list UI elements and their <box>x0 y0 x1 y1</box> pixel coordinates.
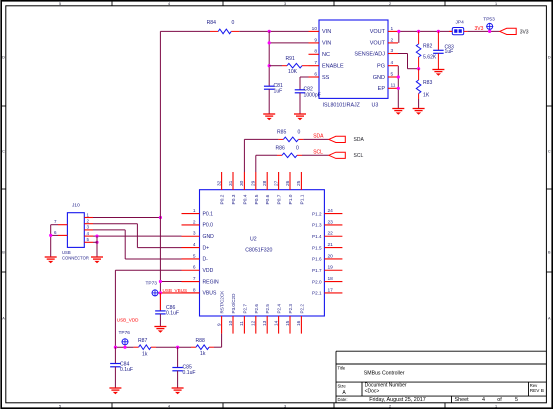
wire P0.4 to R85 <box>243 139 245 172</box>
ground C81 <box>263 113 275 115</box>
svg-text:D-: D- <box>203 257 209 263</box>
svg-text:P2.1: P2.1 <box>312 291 322 296</box>
svg-text:VOUT: VOUT <box>370 29 386 35</box>
svg-text:EP: EP <box>378 86 386 92</box>
U2 pin 4 D+ <box>182 242 210 251</box>
svg-text:R87: R87 <box>138 338 148 344</box>
U2 pin 14 P2.4 <box>273 304 281 334</box>
junction EP pin11 <box>397 87 400 90</box>
svg-text:4: 4 <box>391 60 394 66</box>
svg-text:0: 0 <box>232 20 235 26</box>
svg-text:C: C <box>548 150 551 154</box>
J10 pin 4 <box>84 231 93 236</box>
svg-text:A: A <box>548 317 551 321</box>
power flag 3V3 <box>500 28 529 35</box>
ground R83 <box>413 108 425 110</box>
resistor R91 <box>282 65 287 67</box>
svg-text:32: 32 <box>216 180 222 186</box>
U2 pin 13 P2.5 <box>262 304 270 334</box>
wire USB_VDD rail <box>115 346 133 348</box>
resistor R82 <box>418 31 420 44</box>
resistor R88 <box>191 346 196 348</box>
junction pin9 branch <box>268 41 271 44</box>
svg-text:5: 5 <box>59 2 61 6</box>
svg-text:P1.0: P1.0 <box>288 194 294 204</box>
svg-text:1k: 1k <box>200 351 206 357</box>
svg-text:3: 3 <box>391 48 394 54</box>
svg-text:3: 3 <box>284 2 286 6</box>
svg-text:<Doc>: <Doc> <box>365 389 380 395</box>
wire R86 to SCL <box>302 154 329 156</box>
svg-text:6: 6 <box>193 265 196 271</box>
svg-text:4: 4 <box>168 2 170 6</box>
capacitor C85 <box>177 347 179 367</box>
U2 pin 3 GND <box>182 231 215 240</box>
svg-text:SS: SS <box>322 75 330 81</box>
svg-text:10: 10 <box>228 320 234 326</box>
svg-text:2: 2 <box>193 219 196 225</box>
svg-text:Title: Title <box>338 366 346 371</box>
svg-text:Size: Size <box>338 383 347 388</box>
svg-text:R91: R91 <box>286 56 296 62</box>
offpage flag SCL <box>329 152 364 159</box>
junction VBUS <box>159 216 162 219</box>
U2 pin 6 VDD <box>182 265 214 274</box>
svg-text:REV B: REV B <box>530 388 544 393</box>
svg-text:R88: R88 <box>196 338 206 344</box>
svg-text:SDA: SDA <box>313 134 324 140</box>
junction GND pin5 <box>397 75 400 78</box>
wire J10 D- to U2 D+ <box>93 223 137 225</box>
svg-text:P0.4: P0.4 <box>242 194 248 204</box>
U2 pin 22 P1.4 <box>312 231 342 239</box>
svg-text:3V3: 3V3 <box>520 29 529 35</box>
svg-text:7: 7 <box>314 60 317 66</box>
svg-text:1: 1 <box>495 404 497 408</box>
junction R82 top <box>417 30 420 33</box>
J10 pin 5 <box>84 237 93 242</box>
wire VOUT pin2 join <box>398 31 400 43</box>
svg-text:9: 9 <box>216 323 222 326</box>
U2 pin 2 P0.0 <box>182 219 214 228</box>
U2 pin 11 P2.7 <box>239 304 247 334</box>
svg-text:2: 2 <box>389 404 391 408</box>
wire VBUS vertical <box>159 31 161 311</box>
svg-text:R83: R83 <box>423 80 433 86</box>
svg-text:21: 21 <box>328 242 334 248</box>
test point TP53 <box>483 17 495 32</box>
resistor R85 <box>278 138 283 140</box>
svg-text:23: 23 <box>328 219 334 225</box>
J10 pin 7 <box>54 219 67 225</box>
svg-text:USB: USB <box>62 250 71 255</box>
wire VBUS pin <box>158 292 200 294</box>
svg-text:P2.0: P2.0 <box>312 279 322 284</box>
ground C86 <box>154 326 166 328</box>
wire REGIN <box>160 281 181 283</box>
svg-text:Friday, August 25, 2017: Friday, August 25, 2017 <box>369 397 426 403</box>
svg-text:28: 28 <box>262 180 268 186</box>
svg-text:4: 4 <box>193 242 196 248</box>
connector J10 <box>62 203 89 261</box>
junction TP76 <box>123 346 126 349</box>
svg-text:24: 24 <box>328 208 334 214</box>
svg-text:7: 7 <box>193 276 196 282</box>
svg-text:TP53: TP53 <box>483 17 495 23</box>
svg-text:11: 11 <box>391 83 396 89</box>
svg-text:RST/C2CK: RST/C2CK <box>220 290 225 314</box>
junction C84 <box>114 346 117 349</box>
svg-text:NC: NC <box>322 52 330 58</box>
ground J10 shield <box>45 256 57 258</box>
svg-text:5: 5 <box>59 404 61 408</box>
svg-text:1K: 1K <box>423 93 430 99</box>
svg-text:1uF: 1uF <box>445 49 454 55</box>
U2 pin 5 D- <box>182 253 209 262</box>
svg-text:D: D <box>548 56 551 60</box>
svg-text:27: 27 <box>273 180 279 186</box>
svg-text:P2.5: P2.5 <box>265 304 270 314</box>
svg-text:2: 2 <box>391 37 394 43</box>
svg-text:17: 17 <box>328 287 334 293</box>
test point TP73 <box>146 280 159 296</box>
U2 pin 12 P2.6 <box>251 304 259 334</box>
svg-text:R86: R86 <box>276 145 286 151</box>
svg-text:11: 11 <box>239 321 245 326</box>
wire J10 D+ to U2 D- <box>93 229 125 231</box>
capacitor C81 <box>264 85 275 87</box>
svg-text:P1.2: P1.2 <box>312 211 322 216</box>
svg-text:P2.3: P2.3 <box>288 304 293 314</box>
wire PG/GND/EP <box>397 66 399 109</box>
ground C85 <box>172 387 184 389</box>
svg-text:P2.2: P2.2 <box>299 304 304 314</box>
junction J10 pin4 <box>95 235 98 238</box>
wire J10 VBUS <box>93 217 160 219</box>
junction C83 top <box>437 30 440 33</box>
U2 pin 1 P0.1 <box>182 208 214 217</box>
svg-text:P0.2: P0.2 <box>220 194 226 204</box>
svg-text:R82: R82 <box>423 44 433 50</box>
ground J10 signal <box>91 256 103 258</box>
svg-text:4: 4 <box>482 397 485 403</box>
svg-text:20: 20 <box>328 253 334 259</box>
svg-text:1: 1 <box>193 208 196 214</box>
svg-text:3V3: 3V3 <box>475 26 484 32</box>
svg-text:13: 13 <box>262 320 268 326</box>
svg-text:TP76: TP76 <box>119 330 131 336</box>
wire P0.5 to R86 <box>255 155 257 172</box>
svg-text:P0.7: P0.7 <box>277 194 283 204</box>
svg-text:25: 25 <box>296 180 302 186</box>
svg-text:8: 8 <box>314 49 317 55</box>
U2 pin 15 P2.3 <box>285 304 293 334</box>
U2 pin 16 P2.2 <box>296 304 304 334</box>
svg-text:2: 2 <box>389 2 391 6</box>
U2 pin 10 P3.0/C2D <box>228 293 236 334</box>
svg-text:U3: U3 <box>372 103 379 109</box>
svg-text:1: 1 <box>391 26 394 32</box>
jumper JP4 <box>449 20 467 35</box>
svg-text:0: 0 <box>298 129 301 135</box>
U2 pin 21 P1.5 <box>312 242 342 250</box>
offpage flag SDA <box>329 136 365 143</box>
svg-text:P1.7: P1.7 <box>312 268 322 273</box>
U2 pin 24 P1.2 <box>312 208 342 216</box>
U2 pin 25 P1.1 <box>296 172 305 205</box>
wire J10 shield to ground <box>51 224 58 226</box>
junction REGIN <box>159 280 162 283</box>
svg-text:P0.6: P0.6 <box>265 194 271 204</box>
svg-text:PG: PG <box>377 64 385 70</box>
U2 pin 30 P0.4 <box>239 172 248 205</box>
wire VBUS to VIN rail <box>160 30 210 32</box>
svg-text:5.62K: 5.62K <box>423 54 437 60</box>
U2 pin 19 P1.7 <box>312 265 342 273</box>
wire VDD <box>115 269 181 271</box>
svg-text:REGIN: REGIN <box>203 279 219 285</box>
svg-text:5: 5 <box>193 253 196 259</box>
junction J10 pin5 <box>95 241 98 244</box>
svg-text:R85: R85 <box>277 129 287 135</box>
U2 pin 18 P2.0 <box>312 276 342 284</box>
junction J10 shield <box>49 234 52 237</box>
svg-text:5: 5 <box>391 71 394 77</box>
svg-text:P3.0/C2D: P3.0/C2D <box>231 293 236 314</box>
junction C85 <box>176 346 179 349</box>
svg-text:Sheet: Sheet <box>455 397 470 403</box>
svg-text:10K: 10K <box>288 69 298 75</box>
svg-text:JP4: JP4 <box>456 20 465 26</box>
resistor R87 <box>134 346 139 348</box>
svg-text:P0.0: P0.0 <box>203 223 214 229</box>
svg-text:29: 29 <box>251 180 257 186</box>
svg-text:26: 26 <box>285 180 291 186</box>
svg-text:14: 14 <box>273 320 279 326</box>
svg-text:B: B <box>548 251 551 255</box>
svg-text:6: 6 <box>314 71 317 77</box>
svg-text:P1.6: P1.6 <box>312 257 322 262</box>
U2 pin 29 P0.5 <box>251 172 260 205</box>
svg-text:D: D <box>2 56 5 60</box>
svg-text:CONNECTOR: CONNECTOR <box>62 256 89 261</box>
U2 pin 20 P1.6 <box>312 253 342 261</box>
svg-text:R84: R84 <box>207 20 217 26</box>
regulator U3 ISL80101IRAJZ <box>309 20 399 109</box>
U2 pin 31 P0.3 <box>228 172 237 205</box>
J10 pin 6 <box>54 230 67 236</box>
U2 pin 26 P1.0 <box>285 172 294 205</box>
svg-text:15: 15 <box>285 320 291 326</box>
J10 pin 1 <box>84 212 93 217</box>
wire J10 gnd pins <box>96 236 98 257</box>
svg-text:4: 4 <box>168 404 170 408</box>
svg-text:0.1uF: 0.1uF <box>120 367 133 373</box>
junction VOUT pin2 <box>397 30 400 33</box>
svg-text:1uF: 1uF <box>274 89 283 95</box>
svg-text:0.1uF: 0.1uF <box>183 370 196 376</box>
capacitor C82 <box>295 89 306 91</box>
wire SENSE/ADJ <box>398 53 408 55</box>
U2 pin 32 P0.2 <box>216 172 225 205</box>
svg-text:1000pF: 1000pF <box>304 92 321 98</box>
svg-text:P0.5: P0.5 <box>254 194 260 204</box>
svg-text:SCL: SCL <box>354 153 364 159</box>
svg-text:1: 1 <box>495 2 497 6</box>
junction SENSE/R83 <box>417 67 420 70</box>
U2 pin 7 REGIN <box>182 276 219 285</box>
J10 pin 3 <box>84 225 93 230</box>
resistor R83 <box>418 69 420 80</box>
svg-text:SMBus Controller: SMBus Controller <box>364 371 405 377</box>
svg-text:B: B <box>2 251 5 255</box>
svg-text:19: 19 <box>328 265 334 271</box>
U2 pin 23 P1.3 <box>312 219 342 227</box>
svg-text:ISL80101IRAJZ: ISL80101IRAJZ <box>323 103 361 109</box>
svg-text:D+: D+ <box>203 245 210 251</box>
capacitor C84 <box>114 347 116 363</box>
resistor R86 <box>277 154 282 156</box>
wire J10 GND to U2 GND <box>93 235 182 237</box>
svg-text:SENSE/ADJ: SENSE/ADJ <box>354 51 385 57</box>
MCU U2 C8051F320 <box>200 190 325 316</box>
svg-text:ENABLE: ENABLE <box>322 64 344 70</box>
capacitor C86 <box>155 310 166 312</box>
junction VBUS pin <box>159 291 162 294</box>
U2 pin 8 VBUS <box>182 287 217 296</box>
J10 pin 2 <box>84 219 93 224</box>
svg-text:P2.7: P2.7 <box>242 304 247 314</box>
svg-text:Date:: Date: <box>338 397 348 402</box>
junction ENABLE branch <box>268 64 271 67</box>
svg-text:USB_VDD: USB_VDD <box>117 317 139 322</box>
svg-text:GND: GND <box>373 75 385 81</box>
svg-text:J10: J10 <box>72 203 80 209</box>
resistor R84 <box>210 30 218 32</box>
svg-text:SCL: SCL <box>313 150 323 156</box>
wire R85 to SDA <box>303 138 328 140</box>
junction VIN rail / C81 <box>268 30 271 33</box>
ground C82 <box>294 113 306 115</box>
svg-text:TP73: TP73 <box>146 280 158 286</box>
svg-text:VOUT: VOUT <box>370 41 386 47</box>
svg-text:16: 16 <box>296 320 302 326</box>
svg-text:A: A <box>2 317 5 321</box>
svg-text:GND: GND <box>203 234 215 240</box>
ground U3 <box>392 108 404 110</box>
svg-text:31: 31 <box>228 180 234 186</box>
svg-text:10: 10 <box>312 26 318 32</box>
svg-text:VBUS: VBUS <box>203 291 217 297</box>
wire VIN pin9 branch <box>268 31 270 86</box>
svg-text:5: 5 <box>515 397 518 403</box>
U2 pin 9 RST/C2CK <box>216 290 224 334</box>
wire VOUT to 3V3 <box>398 30 452 32</box>
svg-text:30: 30 <box>239 180 245 186</box>
U2 pin 27 P0.7 <box>273 172 282 205</box>
wire VBUS to C86 <box>159 293 161 311</box>
svg-text:0.1uF: 0.1uF <box>166 311 179 317</box>
svg-text:P2.6: P2.6 <box>254 304 259 314</box>
wire ENABLE branch <box>269 65 282 67</box>
svg-text:18: 18 <box>328 276 334 282</box>
svg-text:22: 22 <box>328 231 334 237</box>
svg-text:P1.1: P1.1 <box>299 194 305 204</box>
svg-text:P0.3: P0.3 <box>231 194 237 204</box>
svg-text:VDD: VDD <box>203 268 214 274</box>
test point TP76 <box>119 330 131 347</box>
svg-text:3: 3 <box>284 404 286 408</box>
U2 pin 17 P2.1 <box>312 287 342 295</box>
svg-text:C8051F320: C8051F320 <box>245 248 272 254</box>
svg-text:of: of <box>497 397 502 403</box>
svg-text:VIN: VIN <box>322 41 331 47</box>
title block <box>336 351 546 403</box>
U2 pin 28 P0.6 <box>262 172 271 205</box>
svg-text:U2: U2 <box>250 237 257 243</box>
svg-text:9: 9 <box>314 37 317 43</box>
svg-text:1k: 1k <box>142 351 148 357</box>
svg-text:P1.4: P1.4 <box>312 234 322 239</box>
svg-text:SDA: SDA <box>354 137 365 143</box>
svg-text:P0.1: P0.1 <box>203 211 214 217</box>
svg-text:P1.5: P1.5 <box>312 245 322 250</box>
wire SS <box>300 76 309 78</box>
svg-text:0: 0 <box>296 145 299 151</box>
capacitor C83 <box>437 31 439 50</box>
ground C83 <box>432 69 444 71</box>
ground C84 <box>109 387 121 389</box>
svg-text:3: 3 <box>193 231 196 237</box>
junction TP53 <box>488 30 491 33</box>
svg-text:C: C <box>2 150 5 154</box>
svg-text:P2.4: P2.4 <box>277 304 282 314</box>
svg-text:VIN: VIN <box>322 29 331 35</box>
svg-text:12: 12 <box>251 320 257 326</box>
svg-text:P1.3: P1.3 <box>312 223 322 228</box>
svg-text:USB_VBUS: USB_VBUS <box>163 288 188 293</box>
